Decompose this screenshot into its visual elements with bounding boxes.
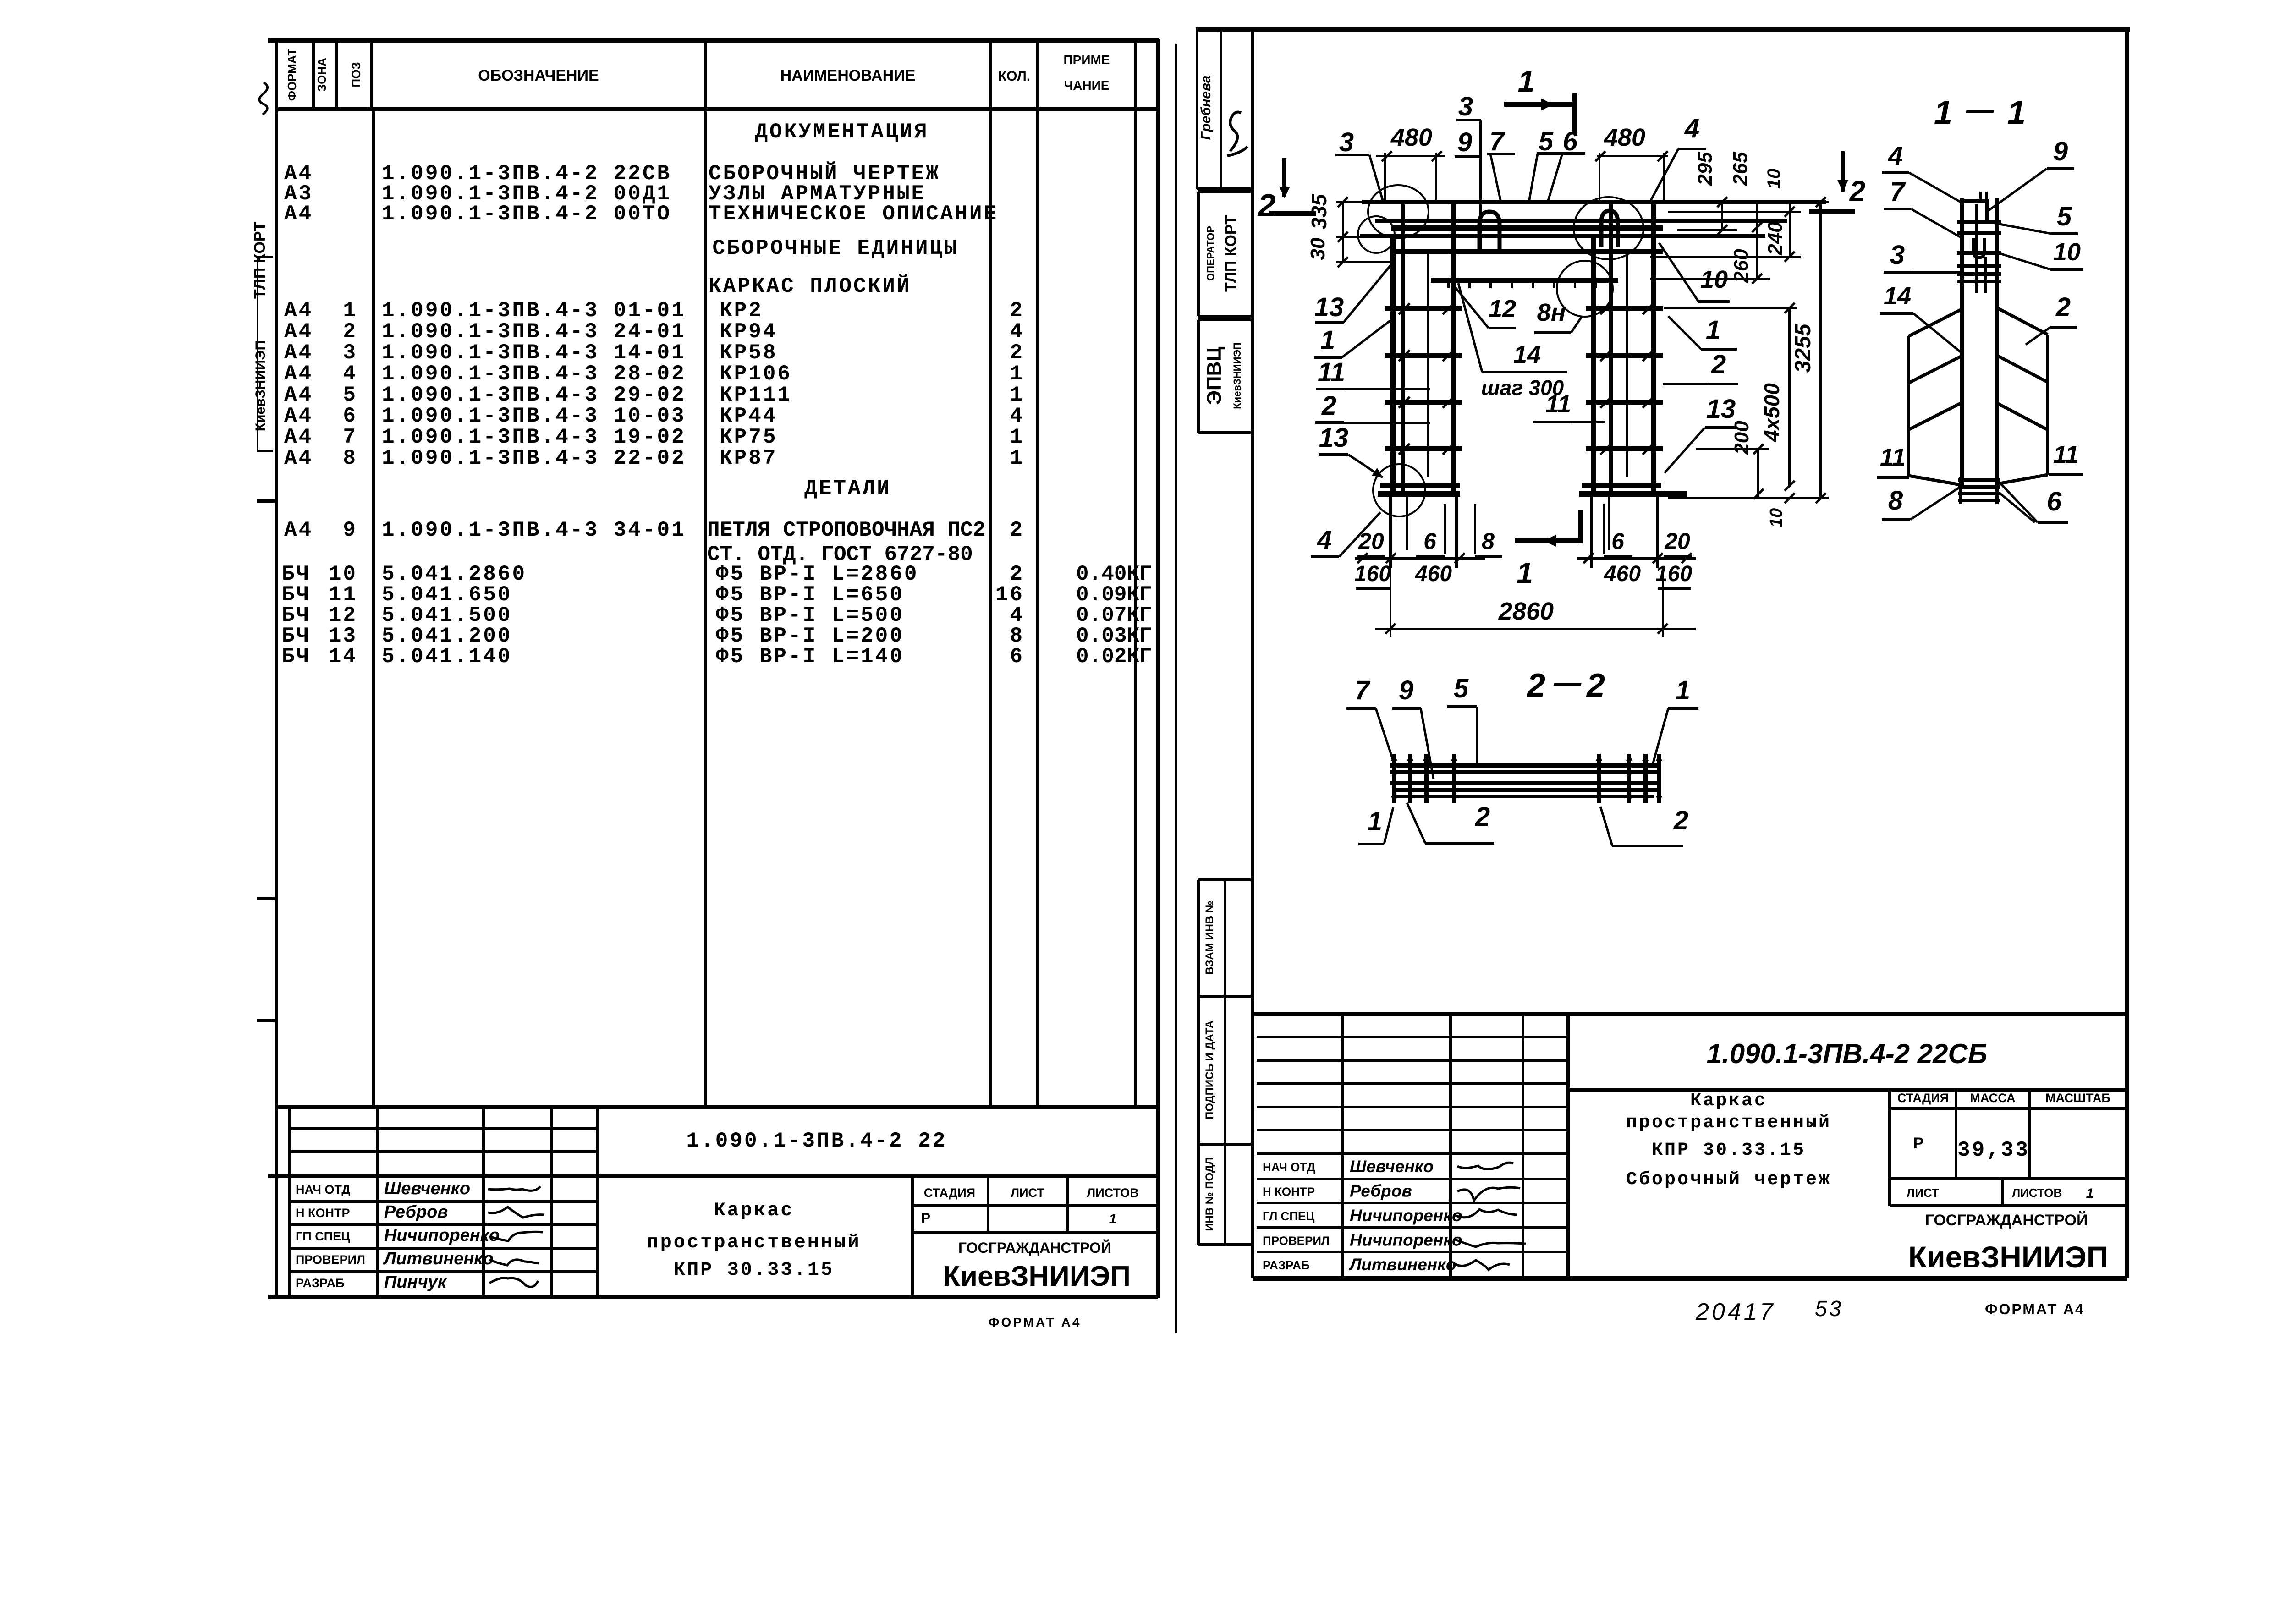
svg-text:ПРИМЕ: ПРИМЕ xyxy=(1064,53,1110,67)
svg-text:1.090.1-3ПВ.4-3 24-01: 1.090.1-3ПВ.4-3 24-01 xyxy=(382,320,686,344)
svg-text:9: 9 xyxy=(1399,675,1413,705)
right column foot extensions xyxy=(1590,494,1593,568)
svg-text:НАЧ ОТД: НАЧ ОТД xyxy=(1263,1160,1316,1174)
svg-text:пространственный: пространственный xyxy=(647,1231,861,1253)
svg-text:1: 1 xyxy=(1518,64,1535,98)
svg-text:1.090.1-3ПВ.4-3 14-01: 1.090.1-3ПВ.4-3 14-01 xyxy=(382,341,686,365)
svg-text:ПОДПИСЬ И ДАТА: ПОДПИСЬ И ДАТА xyxy=(1203,1020,1216,1119)
margin box ПОДПИСЬ И ДАТА xyxy=(1197,996,1200,1144)
svg-text:335: 335 xyxy=(1307,193,1331,229)
svg-text:2: 2 xyxy=(1475,802,1490,832)
svg-text:7: 7 xyxy=(1355,675,1371,705)
svg-text:2: 2 xyxy=(1711,350,1726,379)
svg-text:Шевченко: Шевченко xyxy=(384,1179,470,1198)
margin box ОПЕРАТОР ТЛП КОРТ xyxy=(1197,192,1200,316)
svg-text:11: 11 xyxy=(2053,441,2079,468)
svg-text:Каркас: Каркас xyxy=(1690,1091,1767,1111)
svg-text:Н КОНТР: Н КОНТР xyxy=(296,1206,350,1220)
sec1 top stirrup xyxy=(1962,201,1987,222)
svg-text:2: 2 xyxy=(343,320,357,344)
svg-text:1: 1 xyxy=(2007,94,2026,131)
svg-text:ЧАНИЕ: ЧАНИЕ xyxy=(1064,78,1110,93)
sec2 right stirrup ticks xyxy=(1597,754,1601,803)
svg-text:ВЗАМ ИНВ №: ВЗАМ ИНВ № xyxy=(1203,900,1216,974)
svg-text:ЗОНА: ЗОНА xyxy=(315,58,329,92)
dim 10 bottom xyxy=(1668,497,1829,499)
svg-text:5: 5 xyxy=(2057,202,2072,231)
sec1 column bars xyxy=(1960,198,1964,485)
svg-text:7: 7 xyxy=(1489,126,1506,156)
right page frame xyxy=(1196,27,2130,32)
svg-text:1: 1 xyxy=(1320,325,1335,355)
svg-text:КАРКАС ПЛОСКИЙ: КАРКАС ПЛОСКИЙ xyxy=(709,274,911,298)
svg-text:14: 14 xyxy=(1513,341,1541,368)
svg-text:РАЗРАБ: РАЗРАБ xyxy=(296,1276,345,1290)
right block ЛИСТ ЛИСТОВ xyxy=(1890,1204,2127,1207)
detail circle left joint small xyxy=(1358,216,1395,253)
svg-text:Ребров: Ребров xyxy=(384,1202,448,1222)
svg-text:Гребнева: Гребнева xyxy=(1198,76,1214,140)
beam bar top xyxy=(1362,200,1826,204)
svg-text:ЛИСТ: ЛИСТ xyxy=(1011,1186,1044,1200)
svg-text:4: 4 xyxy=(343,362,357,386)
svg-text:КР111: КР111 xyxy=(720,383,792,407)
svg-text:Шевченко: Шевченко xyxy=(1350,1157,1434,1176)
svg-text:1: 1 xyxy=(1109,1212,1117,1227)
svg-text:КиевЗНИИЭП: КиевЗНИИЭП xyxy=(1231,342,1243,409)
section mark 1 top xyxy=(1504,102,1575,107)
svg-text:13: 13 xyxy=(1314,292,1344,322)
dim 3255 xyxy=(1664,201,1829,203)
svg-text:6: 6 xyxy=(1010,645,1024,669)
svg-text:11: 11 xyxy=(1318,357,1345,387)
svg-text:Сборочный чертеж: Сборочный чертеж xyxy=(1626,1169,1831,1190)
svg-text:13: 13 xyxy=(1706,394,1736,424)
svg-text:ЭПВЦ: ЭПВЦ xyxy=(1203,347,1225,405)
svg-text:2: 2 xyxy=(1010,341,1024,365)
svg-text:5.041.140: 5.041.140 xyxy=(382,645,512,669)
sec1 inner bar detail xyxy=(1975,204,1978,293)
svg-text:1: 1 xyxy=(1706,315,1720,345)
svg-text:ГОСГРАЖДАНСТРОЙ: ГОСГРАЖДАНСТРОЙ xyxy=(1925,1211,2088,1229)
svg-text:КР87: КР87 xyxy=(720,446,777,470)
svg-text:8: 8 xyxy=(343,446,357,470)
svg-text:НАИМЕНОВАНИЕ: НАИМЕНОВАНИЕ xyxy=(780,67,916,84)
svg-text:10: 10 xyxy=(1767,508,1786,527)
svg-text:4: 4 xyxy=(1888,141,1903,171)
svg-text:20: 20 xyxy=(1358,528,1384,554)
svg-text:ГЛ СПЕЦ: ГЛ СПЕЦ xyxy=(1263,1209,1314,1223)
dim 4x500 xyxy=(1664,307,1797,309)
svg-text:20: 20 xyxy=(1664,528,1690,554)
svg-text:СБОРОЧНЫЕ ЕДИНИЦЫ: СБОРОЧНЫЕ ЕДИНИЦЫ xyxy=(712,236,958,260)
svg-text:Пинчук: Пинчук xyxy=(384,1273,447,1292)
svg-text:А4: А4 xyxy=(284,404,313,428)
hook right joint xyxy=(1601,211,1618,247)
svg-text:2: 2 xyxy=(2055,292,2071,322)
svg-text:Ф5 ВР-I L=140: Ф5 ВР-I L=140 xyxy=(716,645,904,669)
svg-text:4: 4 xyxy=(1317,525,1332,555)
svg-text:460: 460 xyxy=(1415,562,1452,586)
dim 240 xyxy=(1789,212,1791,257)
left page frame xyxy=(268,38,1159,43)
svg-text:КПР 30.33.15: КПР 30.33.15 xyxy=(674,1259,834,1281)
svg-text:ПЕТЛЯ СТРОПОВОЧНАЯ ПС2: ПЕТЛЯ СТРОПОВОЧНАЯ ПС2 xyxy=(707,518,985,542)
svg-text:РАЗРАБ: РАЗРАБ xyxy=(1263,1258,1310,1272)
sec1 right wing xyxy=(2046,335,2049,475)
svg-text:1.090.1-3ПВ.4-3 29-02: 1.090.1-3ПВ.4-3 29-02 xyxy=(382,383,686,407)
right title signatures xyxy=(1457,1163,1513,1169)
svg-text:2860: 2860 xyxy=(1498,598,1554,625)
page separator line xyxy=(1175,44,1177,1333)
svg-text:ПОЗ: ПОЗ xyxy=(349,62,363,87)
svg-text:8: 8 xyxy=(1888,486,1903,516)
margin box ИНВ № ПОДЛ xyxy=(1197,1144,1200,1245)
dim line left bottom xyxy=(1355,557,1485,560)
svg-text:1: 1 xyxy=(1517,556,1533,589)
svg-text:БЧ: БЧ xyxy=(282,645,311,669)
right column bars xyxy=(1591,234,1596,494)
svg-text:1: 1 xyxy=(1368,807,1382,836)
svg-text:6: 6 xyxy=(1423,528,1437,554)
left column bottom bundle xyxy=(1380,483,1460,488)
svg-text:6: 6 xyxy=(1611,528,1625,554)
svg-text:пространственный: пространственный xyxy=(1626,1113,1831,1133)
svg-text:ЛИСТ: ЛИСТ xyxy=(1907,1186,1939,1200)
svg-text:160: 160 xyxy=(1655,562,1692,586)
svg-text:1.090.1-3ПВ.4-3 01-01: 1.090.1-3ПВ.4-3 01-01 xyxy=(382,299,686,323)
svg-text:ФОРМАТ: ФОРМАТ xyxy=(285,49,299,101)
svg-text:Ребров: Ребров xyxy=(1350,1182,1412,1201)
svg-text:6: 6 xyxy=(343,404,357,428)
svg-text:1: 1 xyxy=(1010,362,1024,386)
svg-text:ПРОВЕРИЛ: ПРОВЕРИЛ xyxy=(296,1253,365,1267)
svg-text:А4: А4 xyxy=(284,299,313,323)
left column bars xyxy=(1390,234,1396,494)
svg-text:2: 2 xyxy=(1010,299,1024,323)
svg-text:9: 9 xyxy=(343,518,357,542)
svg-text:ЛИСТОВ: ЛИСТОВ xyxy=(2012,1186,2062,1200)
svg-text:МАССА: МАССА xyxy=(1970,1091,2015,1105)
svg-text:КиевЗНИИЭП: КиевЗНИИЭП xyxy=(1908,1240,2108,1274)
sec1 bottom cluster xyxy=(1958,478,2000,482)
svg-text:КР44: КР44 xyxy=(720,404,777,428)
right designation 1.090.1-3ПВ.4-2 22СБ xyxy=(1568,1088,2127,1092)
svg-text:160: 160 xyxy=(1354,562,1391,586)
svg-text:1: 1 xyxy=(1010,383,1024,407)
svg-text:9: 9 xyxy=(2053,137,2068,166)
dim 10 top xyxy=(1789,202,1791,212)
svg-text:1.090.1-3ПВ.4-3 34-01: 1.090.1-3ПВ.4-3 34-01 xyxy=(382,518,686,542)
svg-text:2: 2 xyxy=(1586,667,1605,704)
svg-text:КР75: КР75 xyxy=(720,425,777,449)
svg-text:Каркас: Каркас xyxy=(714,1199,794,1221)
svg-text:А4: А4 xyxy=(284,202,313,226)
svg-text:265: 265 xyxy=(1729,152,1752,186)
svg-text:1: 1 xyxy=(1934,94,1952,131)
svg-text:10: 10 xyxy=(2053,238,2081,266)
svg-text:6: 6 xyxy=(1563,126,1578,156)
sec2 bars xyxy=(1390,763,1661,768)
svg-text:1: 1 xyxy=(1010,446,1024,470)
svg-text:КР94: КР94 xyxy=(720,320,777,344)
svg-text:4х500: 4х500 xyxy=(1760,383,1784,442)
svg-text:9: 9 xyxy=(1457,127,1472,157)
svg-text:12: 12 xyxy=(1489,295,1516,323)
svg-text:ГП СПЕЦ: ГП СПЕЦ xyxy=(296,1229,350,1243)
svg-text:КПР 30.33.15: КПР 30.33.15 xyxy=(1652,1140,1806,1161)
svg-text:2: 2 xyxy=(1849,176,1865,207)
svg-text:ТЕХНИЧЕСКОЕ ОПИСАНИЕ: ТЕХНИЧЕСКОЕ ОПИСАНИЕ xyxy=(709,202,998,226)
svg-text:1.090.1-3ПВ.4-3 10-03: 1.090.1-3ПВ.4-3 10-03 xyxy=(382,404,686,428)
svg-text:Р: Р xyxy=(921,1211,930,1226)
left column ties xyxy=(1385,306,1462,311)
svg-text:1.090.1-3ПВ.4-3 19-02: 1.090.1-3ПВ.4-3 19-02 xyxy=(382,425,686,449)
sec2 left stirrup ticks xyxy=(1392,754,1396,803)
sec1 ties xyxy=(1957,220,2001,224)
svg-text:3: 3 xyxy=(1458,92,1473,121)
right column ties xyxy=(1586,306,1663,311)
svg-text:Литвиненко: Литвиненко xyxy=(1348,1255,1456,1274)
left title block grid xyxy=(277,1105,1158,1109)
beam bar 5 xyxy=(1391,249,1663,254)
svg-text:4: 4 xyxy=(1010,404,1024,428)
svg-text:НАЧ ОТД: НАЧ ОТД xyxy=(296,1183,350,1196)
svg-text:4: 4 xyxy=(1010,320,1024,344)
svg-text:480: 480 xyxy=(1604,124,1645,151)
svg-text:2: 2 xyxy=(1526,667,1545,704)
svg-text:1: 1 xyxy=(1676,675,1690,705)
svg-text:11: 11 xyxy=(1545,390,1571,418)
svg-text:0.02КГ: 0.02КГ xyxy=(1076,645,1152,669)
svg-text:Ничипоренко: Ничипоренко xyxy=(384,1226,500,1245)
svg-text:460: 460 xyxy=(1604,562,1641,586)
margin box ВЗАМ ИНВ № xyxy=(1197,880,1200,996)
svg-text:14: 14 xyxy=(329,645,357,669)
section mark 2 left xyxy=(1282,158,1286,197)
svg-text:5: 5 xyxy=(1454,674,1469,703)
sec1 U hook xyxy=(1973,238,1984,258)
svg-text:2: 2 xyxy=(1321,391,1336,421)
svg-text:КиевЗНИИЭП: КиевЗНИИЭП xyxy=(943,1261,1131,1292)
svg-text:А4: А4 xyxy=(284,518,313,542)
left column foot extensions xyxy=(1389,494,1392,568)
svg-text:КОЛ.: КОЛ. xyxy=(998,69,1030,84)
svg-text:1.090.1-3ПВ.4-3 22-02: 1.090.1-3ПВ.4-3 22-02 xyxy=(382,446,686,470)
detail circle 8н xyxy=(1557,261,1613,317)
dim 480 right xyxy=(1597,155,1668,157)
svg-text:МАСШТАБ: МАСШТАБ xyxy=(2045,1091,2110,1105)
svg-text:8: 8 xyxy=(1482,528,1495,554)
svg-text:13: 13 xyxy=(1319,423,1349,453)
beam right extension lines xyxy=(1677,229,1737,231)
svg-text:А4: А4 xyxy=(284,320,313,344)
right column bottom bundle xyxy=(1582,483,1661,488)
svg-text:240: 240 xyxy=(1764,221,1786,256)
svg-text:3: 3 xyxy=(1890,240,1905,270)
svg-text:1.090.1-3ПВ.4-3 28-02: 1.090.1-3ПВ.4-3 28-02 xyxy=(382,362,686,386)
svg-text:200: 200 xyxy=(1731,421,1753,455)
svg-text:ФОРМАТ А4: ФОРМАТ А4 xyxy=(989,1315,1082,1329)
detail circle left joint big xyxy=(1368,185,1429,238)
svg-text:ДОКУМЕНТАЦИЯ: ДОКУМЕНТАЦИЯ xyxy=(755,120,929,144)
svg-text:7: 7 xyxy=(343,425,357,449)
svg-text:5: 5 xyxy=(343,383,357,407)
beam bar main xyxy=(1391,225,1663,231)
svg-text:1.090.1-3ПВ.4-2 22: 1.090.1-3ПВ.4-2 22 xyxy=(687,1129,947,1153)
svg-text:53: 53 xyxy=(1815,1297,1843,1321)
svg-text:ЛИСТОВ: ЛИСТОВ xyxy=(1087,1186,1139,1200)
dim 335 xyxy=(1336,201,1393,203)
svg-text:1: 1 xyxy=(343,299,357,323)
svg-text:30: 30 xyxy=(1307,237,1329,260)
svg-text:5: 5 xyxy=(1539,126,1554,156)
svg-text:ФОРМАТ А4: ФОРМАТ А4 xyxy=(1985,1301,2085,1317)
svg-text:ТЛП КОРТ: ТЛП КОРТ xyxy=(1222,215,1240,292)
svg-text:СТАДИЯ: СТАДИЯ xyxy=(1897,1091,1949,1105)
dim 200 xyxy=(1696,448,1769,450)
svg-text:Н КОНТР: Н КОНТР xyxy=(1263,1185,1315,1199)
spec table header row xyxy=(275,107,1158,111)
svg-text:А4: А4 xyxy=(284,425,313,449)
svg-text:2: 2 xyxy=(1257,187,1276,223)
dim 2860 xyxy=(1375,628,1696,630)
dim 260 xyxy=(1756,227,1758,279)
svg-text:КР2: КР2 xyxy=(720,299,763,323)
svg-text:295: 295 xyxy=(1694,152,1716,186)
right title block grid xyxy=(1253,1012,2127,1016)
svg-text:ТЛП КОРТ: ТЛП КОРТ xyxy=(251,222,269,299)
svg-text:2: 2 xyxy=(1673,806,1688,835)
svg-text:ОПЕРАТОР: ОПЕРАТОР xyxy=(1205,226,1216,281)
svg-text:14: 14 xyxy=(1884,282,1911,310)
svg-text:4: 4 xyxy=(1684,114,1699,143)
svg-text:—: — xyxy=(1966,94,1994,125)
svg-text:СТАДИЯ: СТАДИЯ xyxy=(924,1186,975,1200)
svg-text:39,33: 39,33 xyxy=(1957,1138,2030,1162)
svg-text:1: 1 xyxy=(2086,1186,2094,1201)
fold marks xyxy=(257,499,277,503)
beam tie line 12 xyxy=(1431,278,1618,283)
svg-text:А4: А4 xyxy=(284,383,313,407)
svg-text:ПРОВЕРИЛ: ПРОВЕРИЛ xyxy=(1263,1234,1330,1248)
svg-text:ИНВ № ПОДЛ: ИНВ № ПОДЛ xyxy=(1203,1157,1216,1231)
margin box Гребнева xyxy=(1196,29,1198,189)
svg-text:3: 3 xyxy=(343,341,357,365)
detail circle right joint big xyxy=(1574,197,1643,259)
right block СТАДИЯ МАССА МАСШТАБ xyxy=(1888,1090,1891,1206)
dim 30 xyxy=(1336,236,1393,238)
section mark 1 bottom xyxy=(1578,510,1583,543)
svg-text:1.090.1-3ПВ.4-2 22СБ: 1.090.1-3ПВ.4-2 22СБ xyxy=(1707,1038,1988,1069)
svg-text:6: 6 xyxy=(2047,487,2062,516)
svg-text:ГОСГРАЖДАНСТРОЙ: ГОСГРАЖДАНСТРОЙ xyxy=(958,1240,1111,1256)
svg-text:Р: Р xyxy=(1913,1135,1924,1152)
svg-text:ДЕТАЛИ: ДЕТАЛИ xyxy=(804,477,891,500)
sec1 left wing xyxy=(1907,336,1910,476)
svg-text:А4: А4 xyxy=(284,446,313,470)
left block СТАДИЯ ЛИСТ ЛИСТОВ xyxy=(912,1204,1158,1207)
section mark 2 right xyxy=(1841,151,1845,192)
hook left joint xyxy=(1479,212,1500,251)
svg-text:А4: А4 xyxy=(284,362,313,386)
beam bar 4 xyxy=(1360,234,1765,238)
svg-text:3: 3 xyxy=(1339,127,1354,157)
svg-text:КР58: КР58 xyxy=(720,341,777,365)
svg-text:КР106: КР106 xyxy=(720,362,792,386)
svg-text:10: 10 xyxy=(1764,169,1784,189)
detail circle left column bottom xyxy=(1373,464,1425,516)
left margin handwriting xyxy=(259,82,268,115)
left block Каркас text xyxy=(911,1176,914,1297)
dim 265 xyxy=(1756,202,1758,227)
svg-text:Литвиненко: Литвиненко xyxy=(383,1249,494,1268)
svg-text:11: 11 xyxy=(1880,444,1906,471)
svg-text:ОБОЗНАЧЕНИЕ: ОБОЗНАЧЕНИЕ xyxy=(478,67,599,84)
dim 295 xyxy=(1721,202,1723,230)
margin box ЭПВЦ КиевЗНИИЭП xyxy=(1197,320,1200,433)
svg-text:1: 1 xyxy=(1010,425,1024,449)
beam bar 2 xyxy=(1375,219,1787,223)
svg-text:260: 260 xyxy=(1730,249,1753,283)
svg-text:2: 2 xyxy=(1010,518,1024,542)
left title signatures xyxy=(488,1186,540,1191)
svg-text:1.090.1-3ПВ.4-2 00ТО: 1.090.1-3ПВ.4-2 00ТО xyxy=(382,202,671,226)
svg-text:7: 7 xyxy=(1890,177,1906,207)
svg-text:Ничипоренко: Ничипоренко xyxy=(1350,1206,1462,1225)
svg-text:3255: 3255 xyxy=(1791,323,1815,373)
svg-text:480: 480 xyxy=(1390,124,1432,151)
svg-text:20417: 20417 xyxy=(1695,1299,1776,1325)
svg-text:—: — xyxy=(1553,667,1582,698)
dim 480 left xyxy=(1376,155,1445,157)
svg-text:А4: А4 xyxy=(284,341,313,365)
svg-text:КиевЗНИИЭП: КиевЗНИИЭП xyxy=(253,340,268,431)
svg-text:8н: 8н xyxy=(1537,299,1566,326)
svg-text:Ничипоренко: Ничипоренко xyxy=(1350,1231,1462,1250)
